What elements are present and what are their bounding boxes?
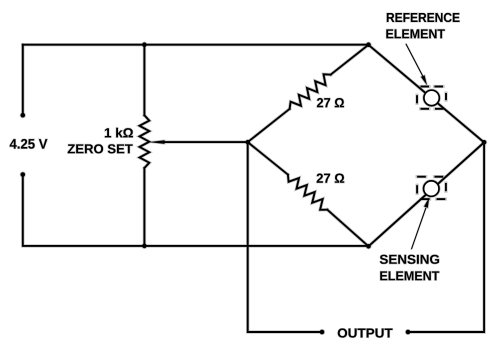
label ZERO SET	[68, 144, 133, 153]
terminal dot battery plus	[21, 113, 26, 118]
junction dot bridge right node	[482, 140, 487, 145]
wire left upper vertical	[22, 45, 24, 115]
resistor R1 27 Ohm zigzag	[290, 74, 331, 109]
label ELEMENT (sensing)	[380, 271, 439, 280]
terminal dot OUTPUT right	[406, 330, 411, 335]
wire bridge arm upper-left lead upper	[331, 45, 369, 75]
leader line to reference element	[406, 44, 427, 85]
label SENSING	[380, 255, 439, 264]
dashed box around sensing element	[417, 177, 446, 199]
label 4.25 V battery value	[10, 139, 48, 149]
wire bridge arm upper-right through reference element	[368, 45, 484, 143]
junction dot pot bottom	[142, 244, 147, 249]
potentiometer wiper arrow	[149, 140, 165, 144]
resistor R2 27 Ohm zigzag	[288, 175, 327, 210]
resistor R3 1 kOhm ZERO SET zigzag	[140, 115, 150, 168]
dashed box around reference element	[417, 87, 446, 109]
wire node A down to OUTPUT left terminal	[248, 142, 322, 332]
junction dot pot top	[142, 42, 147, 47]
terminal dot battery minus	[21, 172, 26, 177]
wire top horizontal	[23, 44, 369, 46]
wire bridge arm lower-left lead lower	[327, 210, 368, 247]
label 27 Ohm (upper arm)	[317, 98, 344, 107]
wire bridge arm lower-left lead upper	[248, 142, 288, 175]
label ELEMENT (reference)	[386, 29, 445, 38]
leader line to sensing element	[412, 197, 430, 249]
label OUTPUT	[338, 328, 393, 337]
wire bridge arm upper-left lead lower	[248, 109, 290, 142]
junction dot bridge bottom node	[366, 244, 371, 249]
reference element circle	[424, 90, 439, 105]
terminal dot OUTPUT left	[320, 330, 325, 335]
wire bridge arm lower-right through sensing element	[369, 142, 485, 246]
sensing element circle	[424, 181, 439, 196]
junction dot node A wiper	[246, 140, 251, 145]
label 1 kOhm value	[105, 128, 133, 138]
wire bottom horizontal	[144, 245, 368, 247]
label REFERENCE	[387, 13, 460, 22]
wire right vertical to OUTPUT right terminal	[408, 142, 484, 332]
label 27 Ohm (lower arm)	[317, 174, 345, 183]
wire potentiometer top lead	[143, 45, 145, 116]
junction dot bridge top node	[366, 42, 371, 47]
wire left lower vertical and bottom-left corner	[23, 174, 145, 246]
wire potentiometer bottom lead	[143, 168, 145, 246]
wire wiper to node A	[162, 141, 248, 143]
